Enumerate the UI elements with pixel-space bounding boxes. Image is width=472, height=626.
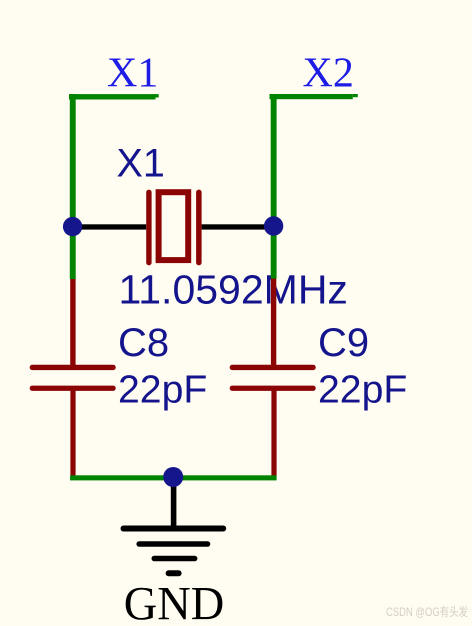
junction node left (63, 217, 82, 236)
pin: C9 lower (dark red) (271, 389, 276, 476)
svg-text:CSDN @OG有头发: CSDN @OG有头发 (386, 604, 468, 619)
capacitor C9 bottom plate (230, 386, 316, 391)
wire: top-right end notch (353, 94, 358, 97)
wire: top-left horizontal (green) (69, 94, 156, 99)
pin: C9 upper (dark red) (271, 278, 276, 366)
crystal X1 body rectangle (159, 192, 189, 260)
crystal X1 left plate (146, 190, 151, 266)
wire: left vertical (green) (70, 94, 76, 279)
ground bar 2 (139, 541, 207, 547)
wire: ground stem (black) (171, 477, 177, 528)
capacitor C9 top plate (230, 365, 316, 370)
svg-text:C9: C9 (318, 321, 369, 365)
wire: left node to crystal (black) (73, 224, 147, 229)
svg-text:22pF: 22pF (118, 369, 207, 412)
svg-text:X1: X1 (117, 142, 165, 186)
junction node bottom (163, 467, 183, 487)
svg-text:GND: GND (124, 577, 225, 626)
svg-text:11.0592MHz: 11.0592MHz (119, 266, 348, 312)
wire: top-right horizontal (green) (270, 94, 353, 99)
svg-text:22pF: 22pF (318, 369, 407, 412)
svg-text:C8: C8 (118, 321, 169, 365)
wire: crystal to right node (black) (202, 224, 274, 229)
wire: right vertical (green) (271, 94, 277, 279)
svg-text:X2: X2 (303, 51, 354, 97)
pin: C8 lower (dark red) (70, 389, 75, 476)
ground bar 4 (169, 570, 179, 576)
wire: bottom horizontal (green) (70, 475, 277, 480)
capacitor C8 bottom plate (30, 386, 116, 391)
ground bar 1 (124, 526, 224, 532)
junction node right (264, 216, 283, 235)
svg-text:X1: X1 (107, 51, 158, 97)
pin: C8 upper (dark red) (70, 279, 75, 367)
capacitor C8 top plate (30, 365, 116, 370)
crystal X1 right plate (196, 190, 202, 266)
ground bar 3 (154, 556, 194, 562)
wire: top-left end notch (156, 94, 159, 97)
